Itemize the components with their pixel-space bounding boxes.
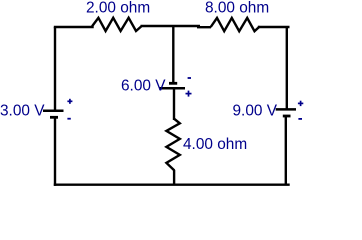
- battery V3 9.00 V short plate: [283, 115, 291, 118]
- label 9.00 V: [233, 102, 278, 119]
- svg-text:3.00 V: 3.00 V: [0, 102, 45, 119]
- plus sign of battery V3: [298, 101, 303, 106]
- label 4.00 ohm: [183, 136, 247, 153]
- wire jog before 8 ohm resistor: [197, 26, 211, 28]
- wire top-middle horizontal segment: [141, 25, 201, 27]
- wire top-right horizontal segment: [259, 26, 288, 28]
- battery V1 3.00 V long plate: [43, 109, 64, 112]
- plus sign of battery V1: [67, 99, 72, 104]
- resistor R1 2.00 ohm: [92, 18, 141, 31]
- minus sign of battery V1: [67, 118, 70, 120]
- label 3.00 V: [0, 102, 45, 119]
- svg-text:8.00 ohm: 8.00 ohm: [205, 0, 269, 16]
- battery V3 9.00 V long plate: [276, 108, 296, 111]
- wire top-left horizontal segment: [55, 26, 93, 28]
- wire bottom horizontal segment: [55, 183, 289, 185]
- wire right vertical lower segment: [285, 116, 287, 185]
- wire middle vertical between battery and resistor: [173, 88, 175, 120]
- svg-text:9.00 V: 9.00 V: [233, 102, 278, 119]
- battery V1 3.00 V short plate: [50, 116, 58, 119]
- battery V2 6.00 V long plate: [159, 87, 185, 90]
- resistor R3 4.00 ohm (vertical): [166, 119, 179, 171]
- wire left vertical lower segment: [54, 117, 56, 184]
- plus sign of battery V2: [186, 91, 192, 97]
- label 2.00 ohm: [86, 0, 150, 16]
- wire middle vertical lower segment: [173, 170, 175, 185]
- battery V2 6.00 V short plate: [169, 82, 177, 85]
- wire right vertical upper segment: [286, 27, 288, 109]
- minus sign of battery V3: [298, 118, 302, 120]
- label 8.00 ohm: [205, 0, 269, 16]
- svg-text:6.00 V: 6.00 V: [121, 78, 166, 95]
- resistor R2 8.00 ohm: [211, 18, 260, 31]
- wire middle vertical upper segment: [172, 25, 174, 83]
- svg-text:4.00 ohm: 4.00 ohm: [183, 136, 247, 153]
- wire left vertical upper segment: [54, 27, 56, 111]
- minus sign of battery V2: [188, 77, 191, 79]
- svg-text:2.00 ohm: 2.00 ohm: [86, 0, 150, 16]
- label 6.00 V: [121, 78, 166, 95]
